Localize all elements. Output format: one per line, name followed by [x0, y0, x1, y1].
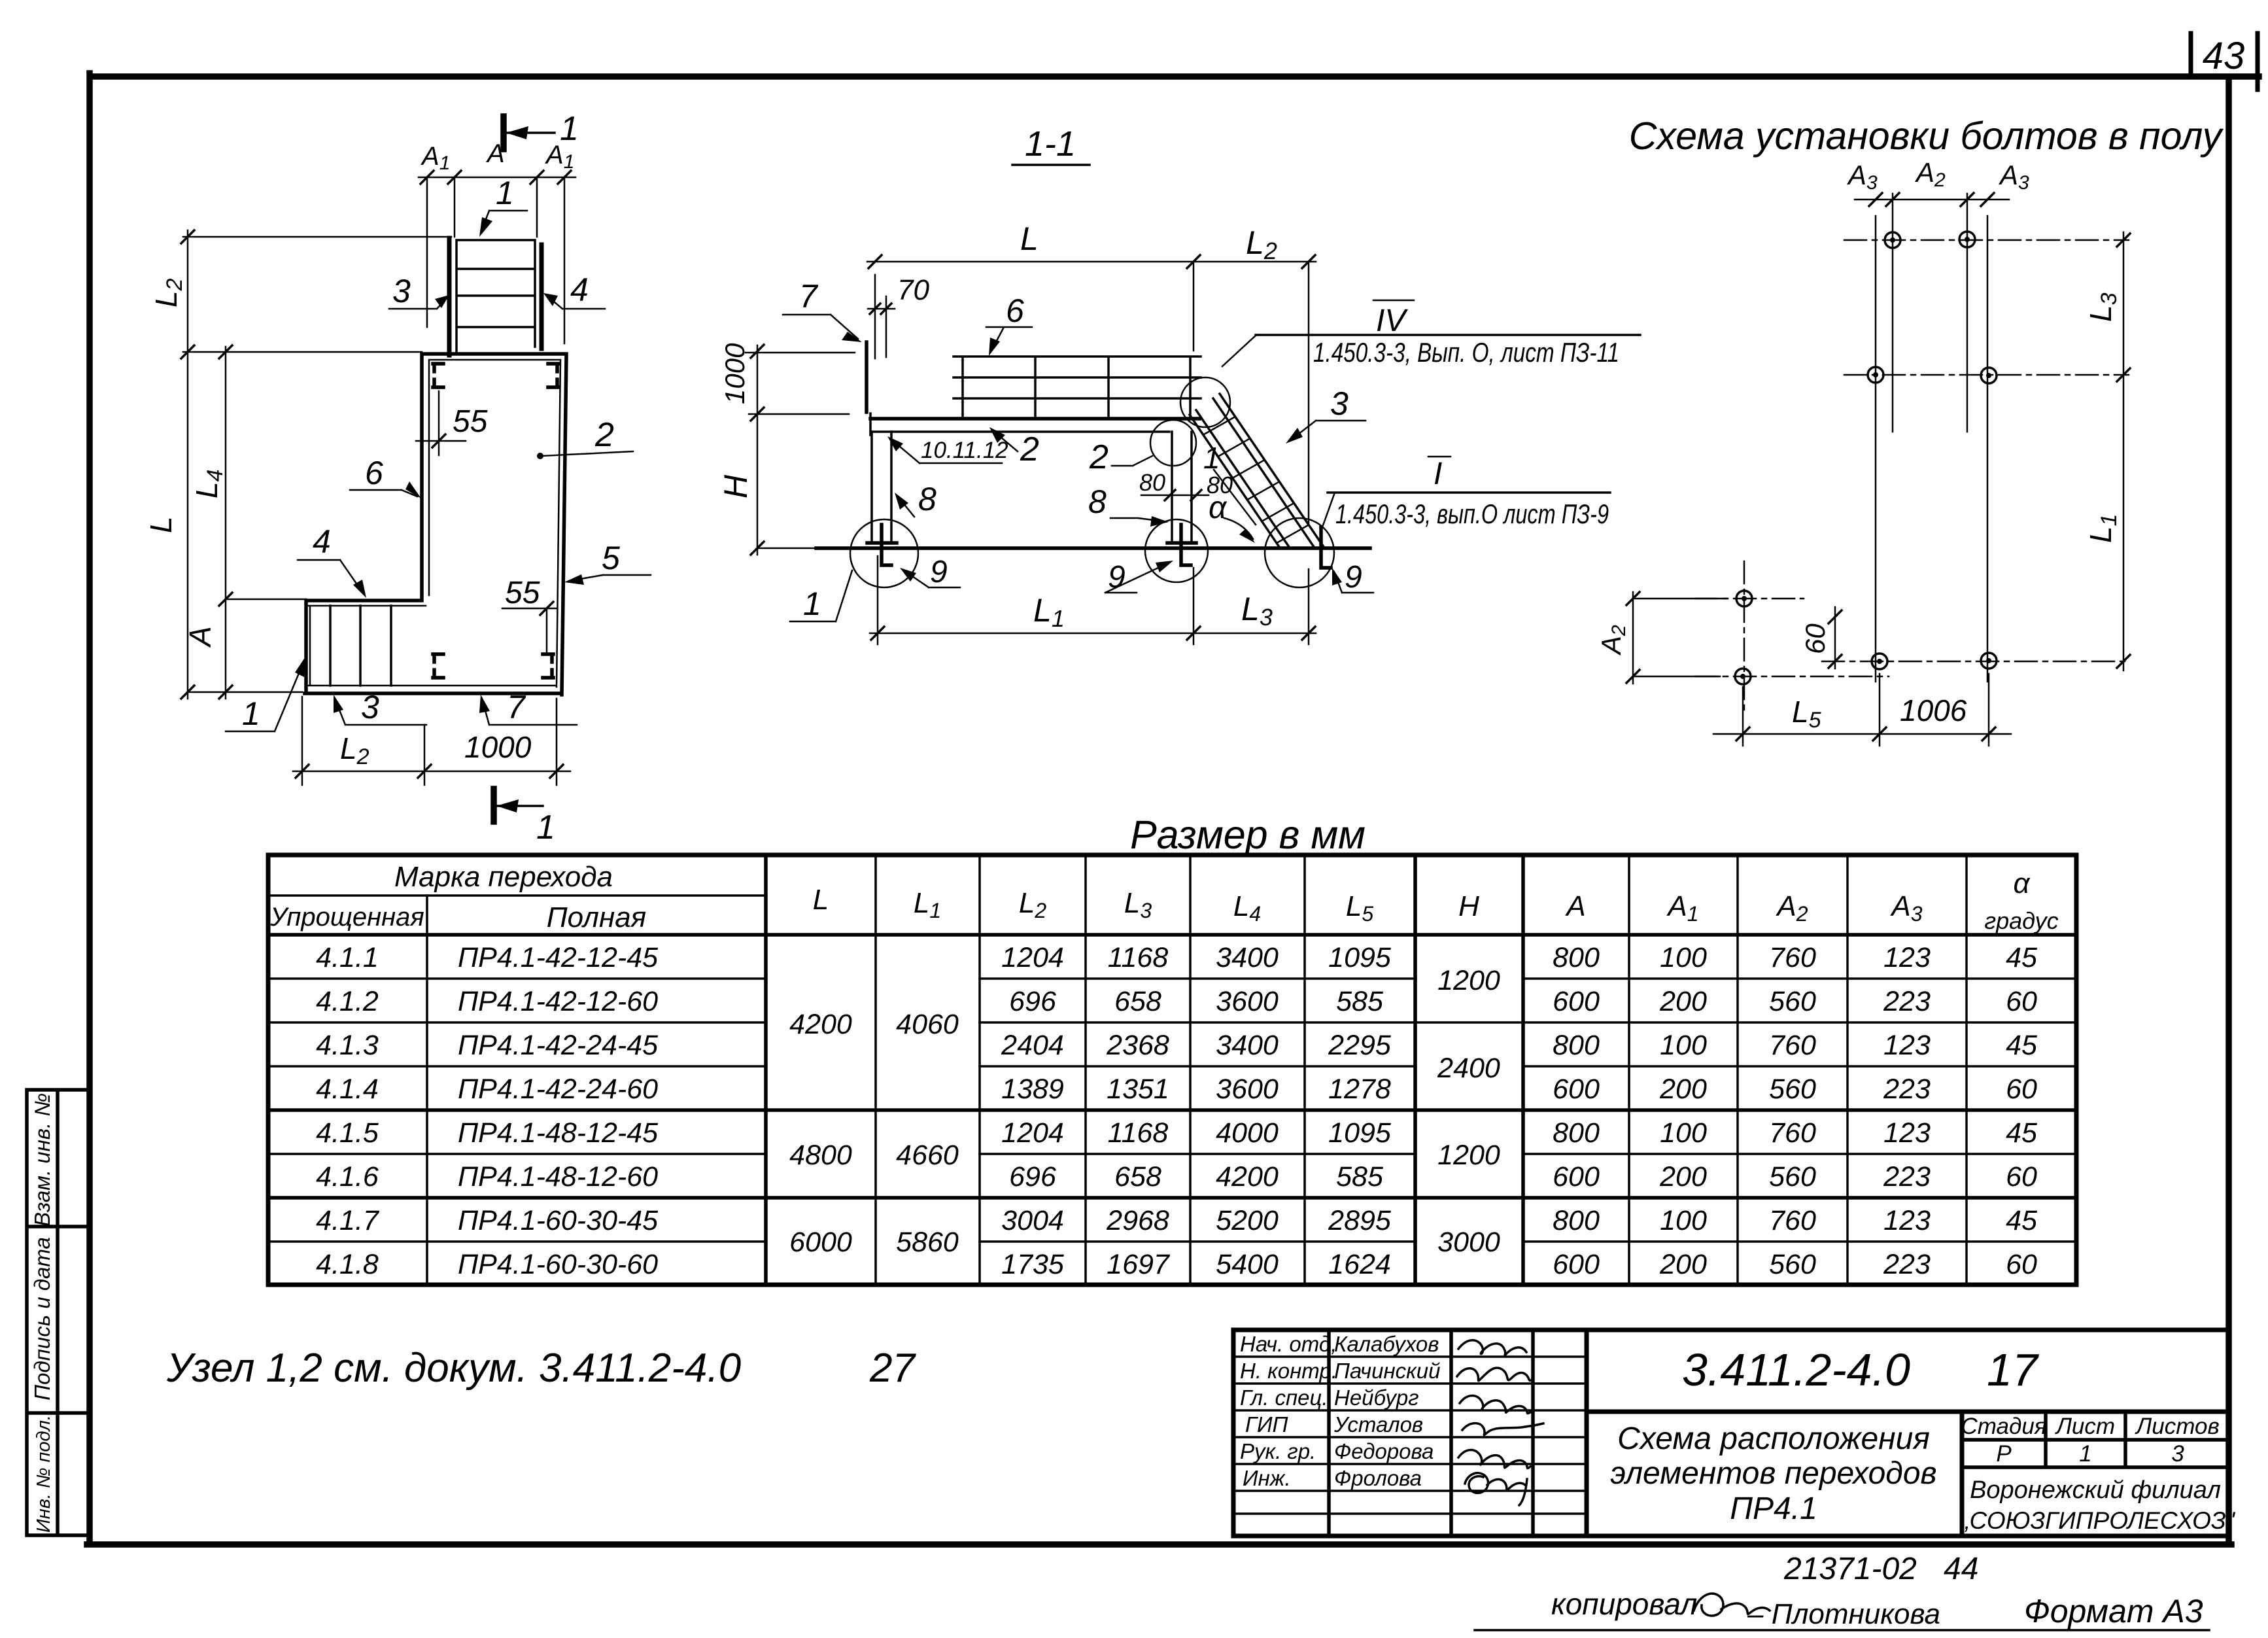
svg-text:4800: 4800: [789, 1140, 852, 1171]
label 7: [783, 315, 858, 339]
svg-text:21371-02: 21371-02: [1783, 1552, 1917, 1586]
anchor detail circle middle: [1145, 519, 1208, 582]
svg-text:3: 3: [361, 689, 379, 725]
BOLT LAYOUT SCHEME (top-right drawing): [1596, 114, 2224, 746]
bolt top row: [1885, 232, 1900, 248]
svg-text:Калабухов: Калабухов: [1334, 1332, 1439, 1356]
label 2 with leader: [541, 451, 633, 456]
svg-text:Взам. инв. №: Взам. инв. №: [30, 1093, 54, 1227]
svg-text:760: 760: [1769, 942, 1816, 973]
dim 80 80: [1141, 495, 1209, 497]
svg-text:5200: 5200: [1216, 1205, 1279, 1236]
label 2 right (column top): [1112, 456, 1152, 466]
label 3 (bottom): [335, 699, 426, 725]
label 6: [986, 327, 1032, 352]
svg-text:Усталов: Усталов: [1333, 1412, 1423, 1437]
svg-text:α: α: [2013, 867, 2031, 899]
svg-text:2: 2: [1089, 438, 1108, 476]
svg-text:4.1.1: 4.1.1: [316, 942, 379, 973]
svg-text:3: 3: [392, 273, 411, 309]
label 8 right: [1110, 518, 1164, 521]
svg-text:2295: 2295: [1328, 1030, 1392, 1061]
label 5: [569, 575, 651, 581]
svg-text:1168: 1168: [1108, 942, 1169, 973]
svg-text:60: 60: [2006, 1249, 2037, 1280]
svg-text:4: 4: [570, 271, 589, 308]
svg-text:ГИП: ГИП: [1245, 1412, 1288, 1437]
svg-text:10.11.12: 10.11.12: [921, 438, 1008, 463]
middle anchor bolt: [1181, 525, 1191, 565]
svg-text:H: H: [1458, 890, 1479, 922]
left anchor bolt: [882, 525, 891, 565]
svg-text:Листов: Листов: [2135, 1414, 2219, 1439]
anchor detail circle I left (item 9): [850, 519, 918, 587]
guard rail (item 6): [954, 357, 1201, 419]
left vertical dims: [183, 230, 451, 699]
svg-text:4.1.6: 4.1.6: [316, 1161, 379, 1193]
svg-text:223: 223: [1883, 986, 1931, 1017]
svg-text:А: А: [183, 626, 217, 648]
table data values: [316, 942, 2038, 1280]
svg-text:2368: 2368: [1106, 1030, 1169, 1061]
svg-text:Р: Р: [1996, 1441, 2012, 1467]
anchor detail circle right (stair base): [1265, 518, 1334, 587]
svg-text:Инж.: Инж.: [1243, 1466, 1291, 1490]
svg-text:123: 123: [1883, 1117, 1931, 1149]
svg-text:4.1.2: 4.1.2: [316, 986, 379, 1017]
svg-text:80: 80: [1139, 469, 1165, 496]
ladder item 1 (top stair plan): [449, 238, 541, 355]
label 2 left: [993, 430, 1018, 451]
svg-text:8: 8: [918, 481, 936, 517]
svg-text:200: 200: [1659, 1249, 1707, 1280]
corner brackets: [433, 364, 443, 387]
LEFT STAMP COLUMN: [27, 1090, 90, 1535]
svg-text:100: 100: [1660, 1117, 1707, 1149]
svg-text:ПР4.1-48-12-45: ПР4.1-48-12-45: [458, 1117, 659, 1149]
svg-text:ПР4.1: ПР4.1: [1730, 1491, 1817, 1526]
table horizontal lines: [268, 894, 766, 897]
stair band (item 3) stringers and handrail: [1190, 394, 1324, 547]
svg-text:Нач. отд,: Нач. отд,: [1240, 1332, 1337, 1356]
dim 70: [868, 275, 895, 358]
svg-text:Стадия: Стадия: [1961, 1414, 2046, 1439]
svg-text:3600: 3600: [1216, 1073, 1279, 1105]
svg-text:123: 123: [1883, 942, 1931, 973]
svg-text:600: 600: [1553, 1249, 1600, 1280]
labels 9: [904, 570, 960, 587]
svg-text:760: 760: [1769, 1117, 1816, 1149]
svg-text:600: 600: [1553, 1073, 1600, 1105]
construction verticals: [1876, 194, 1987, 682]
svg-text:560: 560: [1769, 1073, 1816, 1105]
svg-text:1: 1: [1203, 441, 1220, 475]
svg-text:4: 4: [313, 523, 331, 560]
svg-text:200: 200: [1659, 1161, 1707, 1193]
left column (item 8): [872, 432, 891, 542]
stair rungs: [1204, 417, 1308, 542]
svg-text:L: L: [1020, 220, 1039, 257]
svg-text:45: 45: [2006, 942, 2038, 973]
svg-text:658: 658: [1114, 1161, 1161, 1193]
svg-text:1: 1: [2079, 1441, 2091, 1467]
svg-text:27: 27: [869, 1346, 916, 1391]
svg-text:3: 3: [2171, 1441, 2184, 1467]
svg-text:А: А: [486, 139, 505, 168]
top dim L / L2: [867, 262, 1316, 523]
table header labels: [269, 861, 2058, 934]
svg-text:800: 800: [1553, 1030, 1600, 1061]
svg-text:2: 2: [1020, 430, 1039, 468]
svg-text:123: 123: [1883, 1205, 1931, 1236]
svg-text:Фролова: Фролова: [1334, 1466, 1422, 1490]
TITLE BLOCK: [1233, 1330, 2236, 1536]
svg-text:60: 60: [2006, 1073, 2037, 1105]
bolts left group: [1736, 591, 1752, 606]
svg-text:585: 585: [1336, 1161, 1384, 1193]
svg-text:1200: 1200: [1437, 965, 1500, 996]
svg-text:6000: 6000: [789, 1227, 852, 1258]
svg-text:ПР4.1-60-30-60: ПР4.1-60-30-60: [458, 1249, 658, 1280]
TABLE: [268, 812, 2076, 1285]
label 8 left: [897, 496, 914, 517]
label 1 (bottom left): [226, 661, 304, 731]
stair top connection circle (IV): [1180, 377, 1230, 427]
svg-text:Размер в мм: Размер в мм: [1130, 812, 1366, 857]
svg-text:Полная: Полная: [547, 901, 646, 933]
page number box 43: [2191, 33, 2258, 90]
svg-text:4200: 4200: [789, 1009, 852, 1040]
svg-text:Формат А3: Формат А3: [2024, 1593, 2203, 1629]
svg-text:696: 696: [1009, 1161, 1056, 1193]
lower stair treads (item 3 bottom): [330, 606, 391, 686]
svg-text:44: 44: [1944, 1552, 1978, 1586]
SECTION 1-1 (middle drawing): [717, 124, 1640, 644]
svg-text:L: L: [144, 516, 178, 533]
svg-text:600: 600: [1553, 986, 1600, 1017]
svg-text:1: 1: [536, 809, 555, 846]
leader IV: [1222, 335, 1256, 366]
svg-text:6: 6: [1006, 292, 1024, 329]
svg-text:I: I: [1434, 457, 1442, 491]
right column (item 8): [1172, 432, 1192, 542]
svg-text:17: 17: [1987, 1344, 2040, 1395]
svg-text:43: 43: [2203, 35, 2245, 77]
platform outline (item 2): [305, 354, 566, 695]
bottom dim L5 / 1006: [1713, 674, 2011, 746]
svg-text:4.1.7: 4.1.7: [316, 1205, 380, 1236]
svg-text:3400: 3400: [1216, 1030, 1279, 1061]
svg-text:ПР4.1-60-30-45: ПР4.1-60-30-45: [458, 1205, 659, 1236]
svg-text:1.450.3-3, Вып. О, лист ПЗ-11: 1.450.3-3, Вып. О, лист ПЗ-11: [1313, 337, 1619, 368]
label 4 (wing arrow): [298, 560, 364, 594]
dim 55 (top): [416, 391, 466, 455]
svg-text:– Плотникова: – Плотникова: [1747, 1598, 1940, 1630]
stair anchor bolt: [1321, 527, 1331, 568]
svg-text:α: α: [1209, 491, 1228, 525]
label 1: [790, 570, 852, 621]
svg-text:5400: 5400: [1216, 1249, 1279, 1280]
label 3 (left rail): [389, 298, 447, 309]
svg-text:123: 123: [1883, 1030, 1931, 1061]
svg-text:45: 45: [2006, 1030, 2038, 1061]
svg-text:100: 100: [1660, 1205, 1707, 1236]
svg-text:1697: 1697: [1107, 1249, 1171, 1280]
svg-text:800: 800: [1553, 1117, 1600, 1149]
svg-text:223: 223: [1883, 1073, 1931, 1105]
right dim L3 / L1: [2123, 232, 2125, 671]
svg-text:2968: 2968: [1106, 1205, 1169, 1236]
svg-text:200: 200: [1659, 1073, 1707, 1105]
svg-text:элементов переходов: элементов переходов: [1610, 1456, 1936, 1491]
svg-text:60: 60: [1800, 623, 1830, 654]
dim line A1 A A1: [419, 177, 576, 343]
svg-text:Упрощенная: Упрощенная: [269, 903, 424, 932]
svg-text:55: 55: [505, 576, 540, 610]
svg-text:1: 1: [242, 695, 260, 732]
svg-text:ПР4.1-42-24-60: ПР4.1-42-24-60: [458, 1073, 658, 1105]
ground line: [816, 546, 1370, 550]
center dash-dot lines and bolts: [1695, 240, 2129, 712]
svg-text:IV: IV: [1376, 304, 1408, 338]
svg-text:Гл. спец.: Гл. спец.: [1240, 1385, 1328, 1410]
svg-text:градус: градус: [1984, 907, 2058, 934]
svg-text:4200: 4200: [1216, 1161, 1279, 1193]
svg-text:658: 658: [1114, 986, 1161, 1017]
svg-text:560: 560: [1769, 1161, 1816, 1193]
svg-text:4.1.5: 4.1.5: [316, 1117, 379, 1149]
svg-text:560: 560: [1769, 986, 1816, 1017]
svg-text:5: 5: [602, 540, 620, 576]
bottom dim line L2 / 1000: [293, 697, 570, 785]
svg-text:600: 600: [1553, 1161, 1600, 1193]
svg-text:4660: 4660: [896, 1140, 959, 1171]
svg-text:2895: 2895: [1328, 1205, 1392, 1236]
svg-text:Узел 1,2 см. докум. 3.411.2-4.: Узел 1,2 см. докум. 3.411.2-4.0: [166, 1346, 741, 1391]
svg-text:4.1.4: 4.1.4: [316, 1073, 379, 1105]
top dim A3 A2 A3: [1855, 199, 2009, 201]
BOTTOM ANNOTATIONS: [1475, 1552, 2209, 1630]
svg-text:Рук. гр.: Рук. гр.: [1240, 1439, 1316, 1463]
svg-text:70: 70: [897, 274, 929, 306]
platform floor beam (item 2): [870, 417, 1199, 421]
svg-text:9: 9: [930, 555, 948, 589]
hand rail standoff (item 7): [865, 342, 868, 412]
svg-text:1389: 1389: [1001, 1073, 1064, 1105]
column top detail circle: [1150, 420, 1196, 466]
svg-text:800: 800: [1553, 942, 1600, 973]
svg-text:А: А: [1564, 890, 1585, 922]
label 7 (bottom): [482, 699, 577, 725]
svg-text:60: 60: [2006, 1161, 2037, 1193]
svg-text:100: 100: [1660, 942, 1707, 973]
svg-text:Инв. № подл.: Инв. № подл.: [33, 1415, 54, 1533]
PLAN VIEW (top-left drawing): [144, 110, 651, 846]
bolt row 2: [1868, 367, 1883, 383]
svg-text:2: 2: [594, 416, 614, 454]
svg-text:1278: 1278: [1328, 1073, 1391, 1105]
svg-text:2404: 2404: [1001, 1030, 1064, 1061]
svg-text:3: 3: [1330, 385, 1349, 422]
left dim 1000 / H: [746, 345, 855, 555]
svg-text:Лист: Лист: [2055, 1414, 2115, 1439]
table vertical lines: [766, 855, 1523, 1285]
svg-text:8: 8: [1088, 483, 1107, 520]
svg-text:1168: 1168: [1108, 1117, 1169, 1149]
svg-text:3400: 3400: [1216, 942, 1279, 973]
svg-text:6: 6: [365, 455, 383, 491]
svg-text:1-1: 1-1: [1025, 124, 1076, 164]
svg-text:9: 9: [1108, 560, 1125, 595]
svg-text:ПР4.1-42-24-45: ПР4.1-42-24-45: [458, 1030, 659, 1061]
svg-text:H: H: [717, 474, 754, 498]
svg-text:1000: 1000: [464, 730, 532, 764]
svg-text:1095: 1095: [1328, 942, 1392, 973]
svg-text:200: 200: [1659, 986, 1707, 1017]
svg-text:55: 55: [453, 404, 488, 439]
svg-text:Нейбург: Нейбург: [1334, 1385, 1419, 1410]
svg-text:Схема установки болтов в полу: Схема установки болтов в полу: [1629, 114, 2224, 158]
label 1 (stair leader): [1214, 470, 1256, 525]
svg-text:2400: 2400: [1437, 1053, 1500, 1084]
svg-text:60: 60: [2006, 986, 2037, 1017]
svg-text:100: 100: [1660, 1030, 1707, 1061]
section cut mark 1 (bottom): [490, 789, 497, 822]
label 3 (stair): [1290, 421, 1366, 441]
svg-text:4.1.3: 4.1.3: [316, 1030, 379, 1061]
svg-text:L: L: [813, 884, 829, 916]
svg-text:1095: 1095: [1328, 1117, 1392, 1149]
svg-text:696: 696: [1009, 986, 1056, 1017]
svg-text:1624: 1624: [1328, 1249, 1391, 1280]
svg-text:1.450.3-3, вып.О лист ПЗ-9: 1.450.3-3, вып.О лист ПЗ-9: [1335, 498, 1609, 529]
svg-text:1204: 1204: [1001, 1117, 1064, 1149]
svg-text:Н. контр.: Н. контр.: [1240, 1359, 1337, 1383]
label 6: [350, 490, 417, 497]
svg-text:Марка перехода: Марка перехода: [394, 861, 613, 893]
svg-text:1000: 1000: [719, 343, 750, 404]
svg-text:1006: 1006: [1900, 693, 1967, 727]
section cut mark 1 (top): [500, 116, 507, 149]
bolt bottom row: [1872, 653, 1887, 669]
table outer border: [268, 855, 2076, 1285]
svg-text:760: 760: [1769, 1205, 1816, 1236]
svg-text:223: 223: [1883, 1161, 1931, 1193]
svg-text:45: 45: [2006, 1117, 2038, 1149]
svg-text:7: 7: [507, 689, 526, 725]
dim 60: [1834, 607, 1836, 669]
row separators: [268, 977, 2076, 980]
svg-text:Воронежский филиал: Воронежский филиал: [1970, 1476, 2221, 1504]
svg-text:„СОЮЗГИПРОЛЕСХОЗ": „СОЮЗГИПРОЛЕСХОЗ": [1960, 1507, 2235, 1534]
svg-text:3600: 3600: [1216, 986, 1279, 1017]
svg-text:Подпись и дата: Подпись и дата: [30, 1237, 54, 1401]
label 4 (right rail): [547, 296, 605, 309]
dim A2 (left group): [1633, 592, 1727, 684]
svg-text:585: 585: [1336, 986, 1384, 1017]
svg-text:9: 9: [1345, 560, 1362, 595]
leader item 1: [481, 211, 527, 233]
leader I: [1323, 493, 1335, 525]
bottom dim L1 / L3: [870, 556, 1316, 644]
signatures (handwritten squiggles): [1457, 1340, 1543, 1505]
svg-text:4.1.8: 4.1.8: [316, 1249, 379, 1280]
svg-text:Пачинский: Пачинский: [1334, 1359, 1440, 1383]
dim 55 (bottom right): [502, 608, 557, 654]
svg-text:1204: 1204: [1001, 942, 1064, 973]
svg-text:7: 7: [799, 278, 819, 315]
svg-text:5860: 5860: [896, 1227, 959, 1258]
svg-text:3.411.2-4.0: 3.411.2-4.0: [1682, 1344, 1910, 1395]
svg-text:560: 560: [1769, 1249, 1816, 1280]
svg-text:1200: 1200: [1437, 1140, 1500, 1171]
svg-text:1351: 1351: [1107, 1073, 1169, 1105]
svg-text:Федорова: Федорова: [1334, 1439, 1434, 1463]
svg-text:223: 223: [1883, 1249, 1931, 1280]
svg-text:1735: 1735: [1001, 1249, 1065, 1280]
svg-text:3000: 3000: [1437, 1227, 1500, 1258]
svg-text:4060: 4060: [896, 1009, 959, 1040]
svg-text:1: 1: [803, 585, 821, 622]
svg-text:3004: 3004: [1001, 1205, 1064, 1236]
svg-text:800: 800: [1553, 1205, 1600, 1236]
svg-text:ПР4.1-48-12-60: ПР4.1-48-12-60: [458, 1161, 658, 1193]
label 10.11.12: [891, 439, 1002, 463]
svg-text:4000: 4000: [1216, 1117, 1279, 1149]
svg-text:760: 760: [1769, 1030, 1816, 1061]
svg-text:ПР4.1-42-12-45: ПР4.1-42-12-45: [458, 942, 659, 973]
svg-text:копировал: копировал: [1551, 1587, 1697, 1621]
svg-text:45: 45: [2006, 1205, 2038, 1236]
svg-text:Схема расположения: Схема расположения: [1617, 1421, 1930, 1456]
svg-text:1: 1: [496, 175, 514, 211]
svg-text:ПР4.1-42-12-60: ПР4.1-42-12-60: [458, 986, 658, 1017]
